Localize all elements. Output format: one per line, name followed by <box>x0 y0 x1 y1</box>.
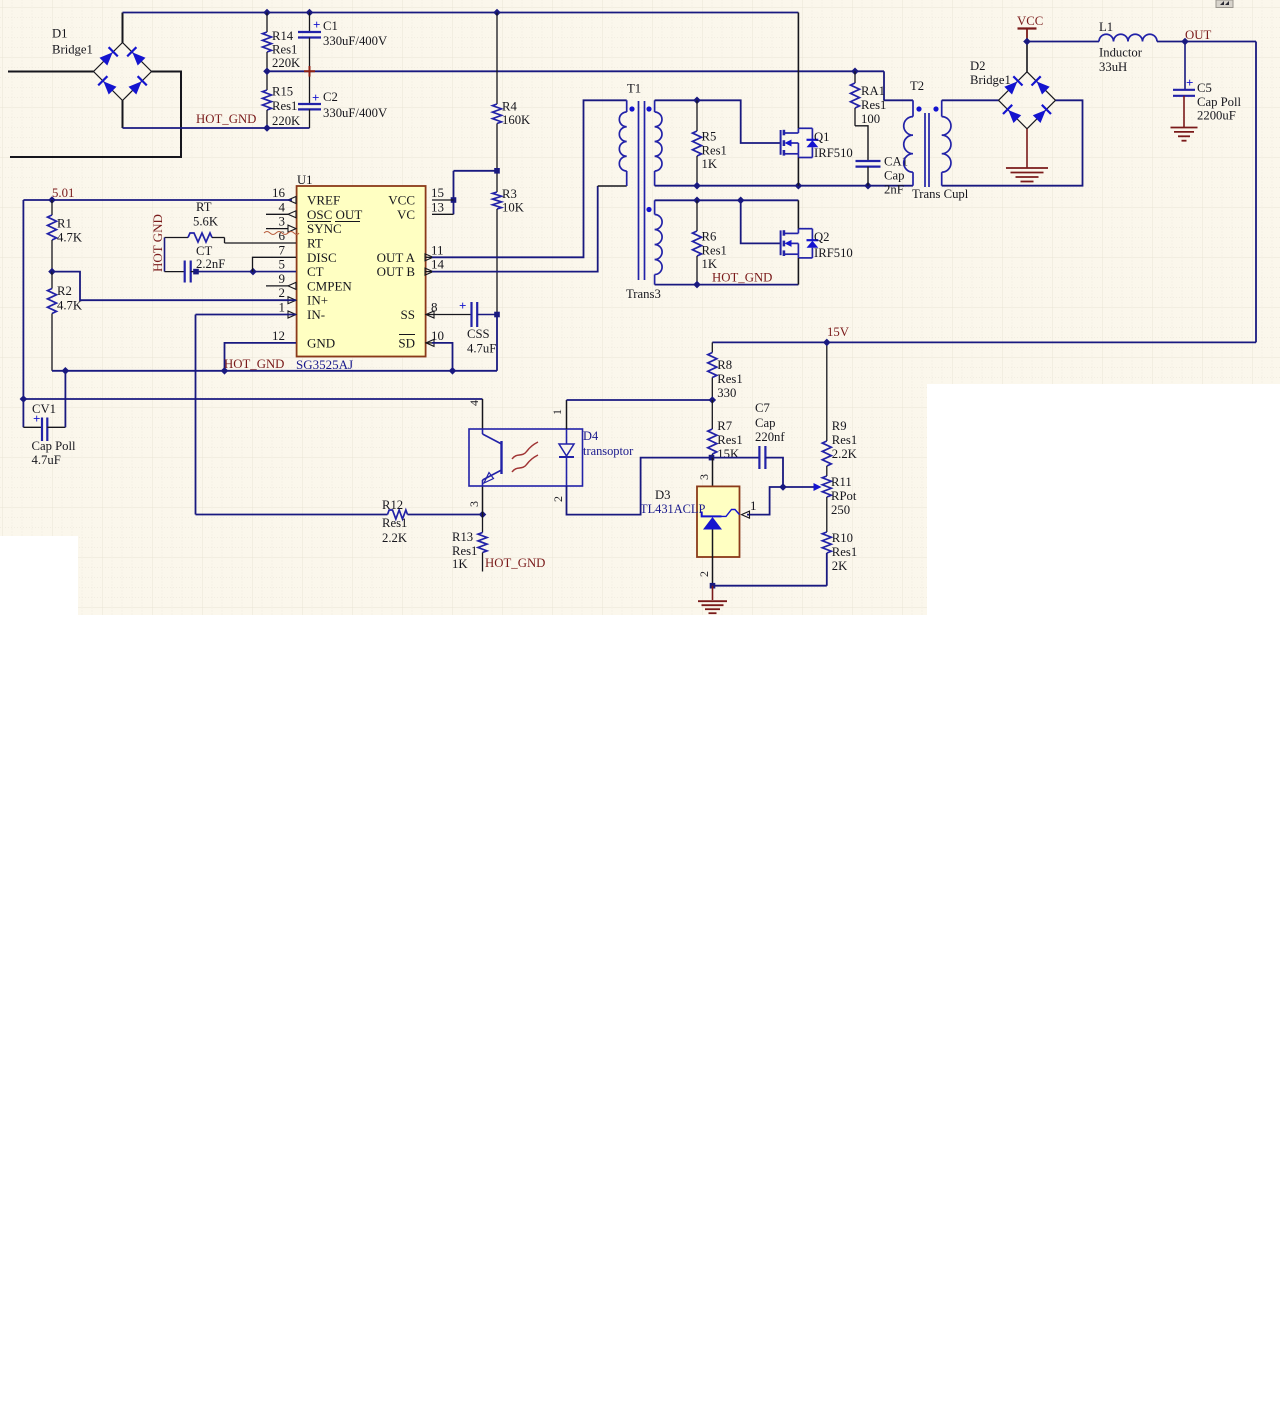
svg-text:4.7uF: 4.7uF <box>32 453 61 467</box>
svg-text:100: 100 <box>861 112 880 126</box>
wire opto pin1 riser <box>567 400 713 429</box>
wire T1 sec bottom top lead <box>655 199 799 201</box>
svg-text:IRF510: IRF510 <box>814 246 853 260</box>
wire D2 top riser <box>1026 42 1028 72</box>
svg-text:CSS: CSS <box>467 327 490 341</box>
wire SD pin10 <box>432 343 453 371</box>
svg-text:330uF/400V: 330uF/400V <box>323 34 388 48</box>
ground symbol D3 <box>698 586 727 614</box>
junction mid rail R14-R15 <box>263 68 271 76</box>
wire HOT_GND T1 bottom <box>655 284 799 286</box>
wire Q2 gate <box>741 200 780 243</box>
svg-text:Res1: Res1 <box>702 244 727 258</box>
svg-text:220K: 220K <box>272 56 301 70</box>
svg-text:VREF: VREF <box>307 193 340 208</box>
resistor R15 <box>263 71 302 128</box>
svg-text:9: 9 <box>279 271 286 286</box>
opto light arrows <box>512 442 538 472</box>
wire CSS node to HOT_GND <box>496 315 498 371</box>
svg-text:VCC: VCC <box>1017 14 1043 28</box>
svg-text:C2: C2 <box>323 90 338 104</box>
svg-text:2nF: 2nF <box>884 183 904 197</box>
svg-text:2.2nF: 2.2nF <box>196 257 225 271</box>
wire OUT A to T1 primary top <box>426 100 627 257</box>
svg-text:C7: C7 <box>755 401 770 415</box>
svg-text:R10: R10 <box>832 531 853 545</box>
svg-text:R6: R6 <box>702 230 717 244</box>
wire VCC-VC to R3/R4 node <box>454 171 498 215</box>
svg-text:1K: 1K <box>452 557 468 571</box>
capacitor C7 <box>712 401 786 487</box>
U1 SD overline <box>399 334 415 336</box>
U1 pin stubs 4,3,9 <box>266 200 454 286</box>
svg-text:IRF510: IRF510 <box>814 146 853 160</box>
svg-text:HOT_GND: HOT_GND <box>712 271 772 285</box>
junction R7/D3/C7 node <box>709 455 715 461</box>
junction DISC/CT <box>249 268 257 276</box>
svg-text:4.7K: 4.7K <box>57 299 83 313</box>
svg-text:D2: D2 <box>970 59 986 73</box>
wire L1 to OUT <box>1157 41 1256 43</box>
svg-text:transoptor: transoptor <box>583 444 634 458</box>
svg-text:RT: RT <box>307 236 323 251</box>
svg-text:OUT A: OUT A <box>377 250 416 265</box>
svg-text:R2: R2 <box>57 284 72 298</box>
junction R1/R2 divider <box>48 268 56 276</box>
schematic sheet background <box>0 0 1280 615</box>
wire HOT_GND main run <box>52 370 497 372</box>
junction Q1 source <box>795 182 803 190</box>
svg-text:Res1: Res1 <box>717 433 742 447</box>
svg-text:L1: L1 <box>1099 20 1113 34</box>
svg-text:13: 13 <box>431 199 444 214</box>
svg-text:Res1: Res1 <box>832 545 857 559</box>
power symbol VCC <box>1017 14 1043 42</box>
svg-text:R8: R8 <box>717 358 732 372</box>
svg-text:5.6K: 5.6K <box>193 215 219 229</box>
resistor R6 <box>693 200 727 284</box>
wire Q2 source riser <box>797 258 799 285</box>
svg-text:VC: VC <box>397 207 415 222</box>
label D2 Bridge1 <box>970 59 1011 87</box>
svg-text:3: 3 <box>279 214 286 229</box>
svg-text:R9: R9 <box>832 419 847 433</box>
capacitor C1 <box>298 13 388 72</box>
T1 polarity dots <box>629 106 651 212</box>
svg-text:14: 14 <box>431 257 445 272</box>
resistor R4 <box>493 13 532 171</box>
U1 right pin numbers <box>431 185 445 343</box>
opto phototransistor <box>483 429 502 486</box>
wire CV1 to HOT_GND <box>64 371 66 428</box>
svg-text:R12: R12 <box>382 498 403 512</box>
junction mid rail RA1 <box>851 68 859 76</box>
svg-text:15V: 15V <box>827 325 850 339</box>
svg-text:250: 250 <box>831 503 850 517</box>
wire D3 pin2 <box>712 530 714 586</box>
svg-text:+: + <box>313 17 320 32</box>
wire RT/CT left leg <box>164 238 166 272</box>
resistor R13 <box>452 515 487 572</box>
ground symbol D2 <box>1006 129 1048 182</box>
svg-text:OUT B: OUT B <box>377 264 416 279</box>
svg-text:OSC OUT: OSC OUT <box>307 207 362 222</box>
svg-text:SS: SS <box>401 307 415 322</box>
transformer T2 <box>904 100 951 187</box>
svg-text:HOT_GND: HOT_GND <box>485 556 545 570</box>
junction 5.01 rail / opto wire <box>20 395 28 403</box>
svg-text:1K: 1K <box>702 257 718 271</box>
junction R6 bottom <box>693 281 701 289</box>
no-ERC marker red cross <box>304 66 315 77</box>
svg-text:1K: 1K <box>702 157 718 171</box>
wire VCC to L1 <box>1027 41 1099 43</box>
svg-text:5: 5 <box>279 257 286 272</box>
svg-text:15K: 15K <box>717 447 740 461</box>
svg-text:R15: R15 <box>272 85 293 99</box>
svg-text:Inductor: Inductor <box>1099 46 1143 60</box>
T2 polarity dots <box>916 106 938 111</box>
junction 5.01/R1 <box>48 196 56 204</box>
svg-text:GND: GND <box>307 335 335 350</box>
junction R5 top <box>693 97 701 105</box>
svg-text:4: 4 <box>279 199 286 214</box>
capacitor CA1 <box>856 155 908 197</box>
junction top rail C1 <box>306 9 314 17</box>
svg-text:4.7K: 4.7K <box>57 231 83 245</box>
svg-text:D4: D4 <box>583 429 598 443</box>
svg-text:6: 6 <box>279 228 286 243</box>
transformer T1 <box>619 100 662 284</box>
svg-text:Res1: Res1 <box>272 99 297 113</box>
wire HOT_GND bridge rail <box>123 127 310 129</box>
junction CA1 bottom <box>864 182 872 190</box>
resistor R12 <box>196 498 483 545</box>
svg-text:RT: RT <box>196 200 212 214</box>
wire T2 secondary bottom loop <box>942 100 1083 185</box>
resistor R9 <box>822 342 857 476</box>
label D1 Bridge1 <box>52 27 93 57</box>
svg-text:R7: R7 <box>717 419 732 433</box>
svg-text:Res1: Res1 <box>382 516 407 530</box>
svg-text:HOT GND: HOT GND <box>150 214 165 272</box>
svg-text:11: 11 <box>431 242 444 257</box>
optocoupler D4 body <box>469 429 583 486</box>
junction R5 bottom <box>693 182 701 190</box>
potentiometer R11 <box>822 475 857 517</box>
wire OUT to C5 <box>1184 42 1186 90</box>
pin 1 arrow D3 <box>742 511 750 518</box>
svg-text:SYNC: SYNC <box>307 221 342 236</box>
svg-text:T2: T2 <box>910 79 924 93</box>
U1 right pin labels <box>377 193 416 351</box>
capacitor C5 <box>1173 75 1242 123</box>
svg-text:C5: C5 <box>1197 81 1212 95</box>
junction top rail R4 <box>493 9 501 17</box>
inductor L1 <box>1099 20 1157 74</box>
svg-text:Cap Poll: Cap Poll <box>1197 95 1242 109</box>
resistor R2 <box>48 272 83 371</box>
svg-text:1: 1 <box>750 498 757 513</box>
svg-text:SD: SD <box>398 335 415 350</box>
svg-text:Bridge1: Bridge1 <box>970 73 1011 87</box>
wire D3 pin3 riser <box>712 458 714 517</box>
svg-text:330uF/400V: 330uF/400V <box>323 106 388 120</box>
wire T2 secondary top to D2 <box>942 99 999 101</box>
svg-text:Res1: Res1 <box>832 433 857 447</box>
svg-text:1: 1 <box>550 409 564 415</box>
opto LED <box>559 429 574 486</box>
svg-text:RA1: RA1 <box>861 84 885 98</box>
svg-text:Res1: Res1 <box>717 372 742 386</box>
svg-text:T1: T1 <box>627 82 641 96</box>
wire opto pin2 to D3 node <box>567 458 712 515</box>
svg-text:+: + <box>33 411 40 426</box>
svg-text:C1: C1 <box>323 19 338 33</box>
wire opto pin4 riser <box>482 399 484 429</box>
svg-text:D3: D3 <box>655 488 671 502</box>
svg-text:R14: R14 <box>272 29 294 43</box>
svg-text:D1: D1 <box>52 27 68 41</box>
svg-text:Res1: Res1 <box>272 43 297 57</box>
junction HOT_GND SD <box>449 367 457 375</box>
wire D3 ref pin1 to wiper <box>747 487 814 515</box>
wire AC input bottom loop <box>10 72 181 158</box>
svg-text:2: 2 <box>551 496 565 502</box>
TL431 D3 body <box>697 486 740 557</box>
svg-text:R13: R13 <box>452 530 473 544</box>
resistor R1 <box>48 200 83 272</box>
junction VCC/L1 <box>1023 38 1031 46</box>
capacitor CT 2.2nF <box>165 244 226 283</box>
window control icon <box>1216 0 1233 8</box>
wire OUT B to T1 primary bottom <box>426 186 627 272</box>
svg-text:R1: R1 <box>57 217 72 231</box>
svg-text:R4: R4 <box>502 100 517 114</box>
svg-text:Bridge1: Bridge1 <box>52 43 93 57</box>
svg-text:SG3525AJ: SG3525AJ <box>296 357 353 372</box>
junction OUT <box>1181 38 1189 46</box>
svg-text:RPot: RPot <box>831 489 857 503</box>
svg-text:220K: 220K <box>272 114 301 128</box>
svg-text:12: 12 <box>272 328 285 343</box>
svg-text:Cap Poll: Cap Poll <box>32 439 77 453</box>
svg-text:TL431ACLP: TL431ACLP <box>640 502 706 516</box>
svg-text:+: + <box>459 298 466 313</box>
junction R12/R13/opto pin3 <box>479 511 487 519</box>
U1 left pin numbers <box>272 185 286 343</box>
wire VREF 5.01 net <box>23 200 292 427</box>
TL431 zener symbol <box>702 510 740 530</box>
svg-text:5.01: 5.01 <box>52 186 74 200</box>
junction C7/wiper/ref <box>779 483 787 491</box>
svg-text:HOT_GND: HOT_GND <box>196 112 256 126</box>
svg-text:10K: 10K <box>502 201 525 215</box>
transistor Q2 IRF510 <box>781 229 853 260</box>
svg-text:CT: CT <box>196 244 212 258</box>
svg-text:4: 4 <box>467 400 481 406</box>
svg-text:2: 2 <box>279 285 286 300</box>
capacitor CSS <box>426 298 497 356</box>
resistor R5 <box>693 100 727 185</box>
svg-text:2.2K: 2.2K <box>382 531 408 545</box>
label D4 transoptor <box>583 429 634 458</box>
wire opto pin3 riser <box>482 486 484 515</box>
svg-text:10: 10 <box>431 328 444 343</box>
junction VCC/VC pins <box>451 197 457 203</box>
svg-text:220nf: 220nf <box>755 430 785 444</box>
wire GND pin12 <box>225 343 297 371</box>
wire mid tap rail <box>655 185 913 187</box>
svg-text:330: 330 <box>717 386 736 400</box>
svg-text:15: 15 <box>431 185 444 200</box>
U1 pin arrows <box>288 197 434 347</box>
svg-text:3: 3 <box>697 474 711 480</box>
svg-text:OUT: OUT <box>1185 28 1211 42</box>
wire CV1 node to opto pin4 <box>23 398 482 400</box>
wire CT to pin5 <box>196 271 296 273</box>
svg-text:IN-: IN- <box>307 307 325 322</box>
svg-text:2.2K: 2.2K <box>832 447 858 461</box>
svg-text:Trans Cupl: Trans Cupl <box>912 187 969 201</box>
resistor RT 5.6K <box>165 200 297 243</box>
svg-text:4.7uF: 4.7uF <box>467 342 496 356</box>
svg-text:Cap: Cap <box>884 169 904 183</box>
junction top rail R14 <box>263 9 271 17</box>
resistor RA1 <box>851 71 887 126</box>
wire D3 pin2 to R10 <box>713 553 827 586</box>
transistor Q1 IRF510 <box>781 128 853 160</box>
wire IN- riser <box>196 315 297 515</box>
junction CT wire <box>193 269 199 275</box>
svg-text:Cap: Cap <box>755 416 775 430</box>
svg-text:Trans3: Trans3 <box>626 287 661 301</box>
svg-text:+: + <box>312 90 319 105</box>
wire bridge D1 bottom riser <box>122 101 124 129</box>
svg-text:16: 16 <box>272 185 286 200</box>
wire top rail +HV <box>123 12 799 14</box>
svg-text:IN+: IN+ <box>307 293 328 308</box>
resistor R14 <box>263 13 302 72</box>
resistor R10 <box>822 497 857 586</box>
ground symbol C5 <box>1171 96 1198 141</box>
svg-text:Q1: Q1 <box>814 130 830 144</box>
svg-text:2: 2 <box>697 571 711 577</box>
IC U1 SG3525AJ body <box>297 186 426 357</box>
wire Q2 drain riser <box>797 200 799 228</box>
svg-text:R11: R11 <box>831 475 852 489</box>
svg-text:3: 3 <box>467 501 481 507</box>
wire AC input top <box>8 71 94 73</box>
svg-text:2K: 2K <box>832 559 848 573</box>
svg-text:HOT_GND: HOT_GND <box>224 357 284 371</box>
ERC marker squiggle pin3 <box>264 232 299 235</box>
wire DISC to CT <box>253 257 297 271</box>
svg-text:Q2: Q2 <box>814 230 830 244</box>
svg-text:Res1: Res1 <box>702 144 727 158</box>
svg-text:Res1: Res1 <box>452 544 477 558</box>
bridge rectifier D1 <box>94 43 152 101</box>
svg-text:R3: R3 <box>502 187 517 201</box>
junction CSS/R3 <box>494 312 500 318</box>
bridge rectifier D2 <box>999 72 1056 129</box>
junction R8/R7/opto <box>709 396 717 404</box>
svg-text:DISC: DISC <box>307 250 337 265</box>
svg-text:1: 1 <box>279 300 286 315</box>
junction R15 bottom <box>263 124 271 132</box>
svg-text:R5: R5 <box>702 130 717 144</box>
svg-text:U1: U1 <box>297 173 313 187</box>
junction Q2 gate tap <box>737 197 745 205</box>
wire Q1 source riser <box>797 158 799 186</box>
wire T1 sec top to Q1 gate <box>655 100 780 143</box>
resistor R7 <box>708 400 743 461</box>
svg-text:160K: 160K <box>502 113 531 127</box>
svg-text:2200uF: 2200uF <box>1197 109 1236 123</box>
junction 15V/R9 <box>823 339 831 347</box>
svg-text:VCC: VCC <box>388 193 415 208</box>
junction HOT_GND pin12 <box>221 367 229 375</box>
svg-text:CMPEN: CMPEN <box>307 278 352 293</box>
wire 15V rail <box>712 42 1256 343</box>
svg-text:33uH: 33uH <box>1099 60 1127 74</box>
wire divider to IN+ <box>52 272 296 301</box>
svg-text:+: + <box>1186 75 1193 90</box>
wire mid rail to T2 <box>267 71 913 100</box>
U1 left pin labels <box>307 193 362 351</box>
resistor R3 <box>493 171 525 315</box>
capacitor C2 <box>298 71 388 128</box>
svg-text:7: 7 <box>279 242 286 257</box>
wiper arrow R11 <box>814 483 822 491</box>
wire Q1 drain riser <box>797 13 799 129</box>
U1 OSC OUT underline / SYNC overline <box>307 221 360 223</box>
wire bridge D1 top riser <box>122 13 124 43</box>
junction D3 pin2/gnd <box>710 583 716 589</box>
resistor R8 <box>708 342 743 400</box>
junction R6 top <box>693 197 701 205</box>
svg-text:Res1: Res1 <box>861 98 886 112</box>
junction R4/R3 node <box>494 168 500 174</box>
svg-text:CT: CT <box>307 264 324 279</box>
wire RA1 to CA1 <box>855 126 868 161</box>
junction HOT_GND CV1 <box>62 367 70 375</box>
capacitor CV1 <box>23 402 76 467</box>
